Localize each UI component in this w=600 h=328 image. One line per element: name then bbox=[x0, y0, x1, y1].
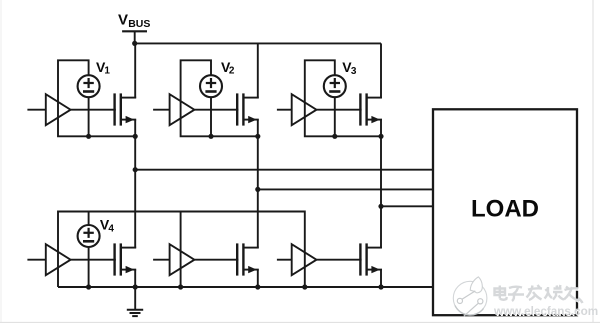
svg-text:1: 1 bbox=[104, 66, 110, 77]
voltage source V2 bbox=[200, 75, 222, 97]
node V3 ground junction bbox=[332, 134, 337, 139]
transistor Q6 bbox=[360, 243, 382, 275]
wire gate Q6 bbox=[317, 259, 362, 261]
wire driver supply box cell 1 bbox=[58, 60, 135, 136]
wire V3 negative terminal bbox=[334, 97, 336, 136]
wire V4 negative terminal bbox=[88, 247, 90, 287]
buffer U6 bbox=[292, 244, 317, 275]
wire input U2 bbox=[153, 109, 170, 111]
wire gate Q4 bbox=[71, 259, 116, 261]
wire input U3 bbox=[277, 109, 292, 111]
buffer U5 bbox=[170, 244, 195, 275]
wire V1 negative terminal bbox=[88, 97, 90, 136]
wire source Q5 bbox=[257, 270, 259, 287]
transistor Q4 bbox=[115, 243, 137, 275]
svg-text:www.elecfans.com: www.elecfans.com bbox=[493, 305, 598, 318]
wire ground rail bbox=[58, 286, 434, 288]
wire phase A vertical bbox=[134, 136, 136, 247]
wire VBUS rail bbox=[135, 42, 381, 44]
wire drain Q2 bbox=[257, 43, 259, 97]
wire VBUS stub bbox=[134, 31, 136, 43]
transistor Q2 bbox=[237, 93, 259, 125]
wire input U6 bbox=[277, 259, 292, 261]
wire gate Q1 bbox=[71, 109, 116, 111]
wire phase A to load bbox=[135, 169, 434, 171]
voltage source V1 bbox=[78, 75, 100, 97]
wire source Q4 bbox=[134, 270, 136, 287]
wire drain Q1 bbox=[134, 43, 136, 97]
node phase C bbox=[378, 204, 383, 209]
wire source Q6 bbox=[380, 270, 382, 287]
wire driver supply box cell 3 bbox=[305, 60, 381, 136]
node Q3 source junction bbox=[378, 134, 383, 139]
transistor Q5 bbox=[237, 243, 259, 275]
buffer U2 bbox=[170, 94, 195, 125]
ground bbox=[127, 287, 143, 316]
wire drain Q3 bbox=[380, 43, 382, 97]
node Q6 source junction bbox=[378, 284, 383, 289]
wire input U5 bbox=[153, 259, 170, 261]
LOAD block bbox=[433, 109, 577, 315]
svg-text:3: 3 bbox=[351, 66, 357, 77]
wire input U4 bbox=[27, 259, 45, 261]
node VBUS junction bbox=[132, 41, 137, 46]
transistor Q3 bbox=[360, 93, 382, 125]
wire low-side supply drop cell 5 bbox=[180, 212, 182, 288]
wire phase C to load bbox=[381, 205, 434, 207]
wire gate Q5 bbox=[195, 259, 239, 261]
wire gate Q3 bbox=[317, 109, 362, 111]
wire V2 negative terminal bbox=[210, 97, 212, 136]
wire V4 positive terminal bbox=[88, 212, 90, 226]
node phase B bbox=[255, 187, 260, 192]
node V1 ground junction bbox=[86, 134, 91, 139]
wire source Q1 bbox=[134, 120, 136, 137]
node Q4 source junction bbox=[133, 284, 138, 289]
svg-text:V: V bbox=[118, 11, 128, 28]
wire low-side supply rail bbox=[58, 212, 305, 288]
svg-text:2: 2 bbox=[229, 66, 235, 77]
node V2 ground junction bbox=[208, 134, 213, 139]
buffer U3 bbox=[292, 94, 317, 125]
wire phase C vertical bbox=[380, 136, 382, 247]
node cell5 supply junction bbox=[178, 284, 183, 289]
node cell6 supply junction bbox=[302, 284, 307, 289]
wire driver supply box cell 2 bbox=[181, 60, 258, 136]
wire phase B to load bbox=[258, 188, 434, 190]
watermark text chinese bbox=[495, 285, 584, 304]
svg-text:LOAD: LOAD bbox=[471, 196, 539, 223]
watermark logo bbox=[453, 277, 487, 316]
svg-text:4: 4 bbox=[108, 224, 114, 235]
buffer U4 bbox=[46, 244, 71, 275]
wire source Q2 bbox=[257, 120, 259, 137]
voltage source V4 bbox=[78, 225, 100, 247]
VBUS terminal bar bbox=[122, 30, 147, 32]
wire input U1 bbox=[27, 109, 45, 111]
node V4 ground junction bbox=[86, 284, 91, 289]
wire source Q3 bbox=[380, 120, 382, 137]
buffer U1 bbox=[46, 94, 71, 125]
svg-text:BUS: BUS bbox=[128, 18, 150, 30]
wire gate Q2 bbox=[195, 109, 239, 111]
node Q5 source junction bbox=[255, 284, 260, 289]
wire phase B vertical bbox=[257, 136, 259, 247]
node Q2 source junction bbox=[255, 134, 260, 139]
node Q1 source junction bbox=[133, 134, 138, 139]
voltage source V3 bbox=[324, 75, 346, 97]
transistor Q1 bbox=[115, 93, 137, 125]
node phase A bbox=[133, 167, 138, 172]
